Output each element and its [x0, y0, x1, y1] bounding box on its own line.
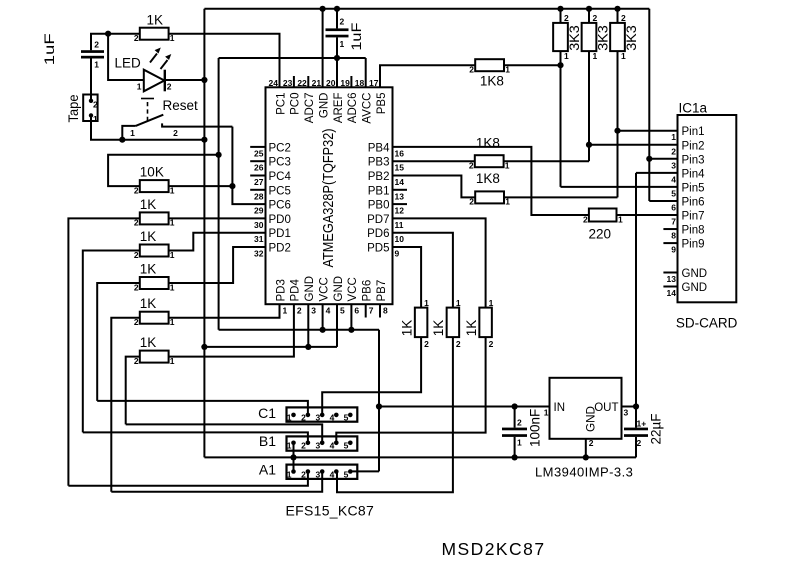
wire C2 top riser [336, 9, 338, 29]
wire SD right vertical [648, 9, 650, 201]
svg-text:VCC: VCC [318, 277, 330, 301]
svg-text:1: 1 [170, 185, 175, 195]
wire AVCC riser [365, 58, 367, 87]
junction 5 [216, 152, 222, 158]
stub SD Pin8 [663, 228, 677, 230]
svg-text:20: 20 [326, 78, 336, 88]
wire 10K pin2 link [108, 155, 219, 186]
connector J1 Tape body [83, 95, 97, 122]
svg-text:2: 2 [301, 413, 306, 423]
wire AREF/AVCC line [219, 57, 366, 59]
wire A1 pin3 feed [111, 472, 322, 492]
wire VCC descent [378, 330, 380, 472]
svg-text:1K: 1K [140, 296, 157, 311]
svg-text:Pin2: Pin2 [682, 140, 705, 152]
svg-text:PC1: PC1 [275, 93, 287, 115]
wire PD6 line [393, 233, 453, 308]
svg-text:220: 220 [589, 227, 612, 242]
junction 7 [320, 6, 326, 12]
svg-text:PB1: PB1 [368, 185, 390, 197]
junction 3 [119, 137, 125, 143]
wire R3 to PD1 [169, 233, 266, 251]
stub pin27 [250, 175, 265, 177]
resistor R1 1K (LED) [140, 28, 169, 40]
stub pin7 [365, 304, 367, 317]
svg-text:2: 2 [134, 317, 139, 327]
switch S1 blade [136, 115, 164, 126]
svg-text:1: 1 [137, 82, 142, 92]
junction 14 [586, 142, 592, 148]
svg-text:2: 2 [134, 282, 139, 292]
svg-text:23: 23 [283, 78, 293, 88]
svg-text:SD-CARD: SD-CARD [676, 316, 738, 331]
svg-text:3: 3 [315, 469, 320, 479]
junction 21 [376, 403, 382, 409]
svg-text:Pin7: Pin7 [682, 211, 705, 223]
wire GND left vertical [203, 9, 205, 458]
svg-text:PD5: PD5 [367, 243, 389, 255]
svg-text:1: 1 [170, 356, 175, 366]
junction 4 [201, 137, 207, 143]
junction 18 [348, 327, 354, 333]
wire pin6 VCC riser [350, 304, 352, 330]
svg-text:PD3: PD3 [275, 279, 287, 301]
svg-text:1: 1 [456, 298, 461, 308]
svg-text:22: 22 [297, 78, 307, 88]
stub SD GND14 [663, 286, 677, 288]
junction 9 [334, 55, 340, 61]
svg-text:15: 15 [395, 163, 405, 173]
svg-text:PC0: PC0 [290, 93, 302, 115]
junction 20 [201, 344, 207, 350]
svg-text:PB4: PB4 [368, 142, 390, 154]
wire PB2 line [393, 176, 476, 198]
svg-text:2: 2 [671, 146, 676, 156]
svg-text:27: 27 [254, 177, 264, 187]
svg-text:18: 18 [355, 78, 365, 88]
svg-text:PC6: PC6 [269, 200, 291, 212]
svg-text:1K: 1K [140, 335, 157, 350]
svg-text:3: 3 [311, 306, 316, 316]
svg-text:16: 16 [395, 148, 405, 158]
LED D1 triangle [144, 70, 165, 92]
connector C1 [287, 407, 358, 421]
junction 19 [305, 344, 311, 350]
wire VCC vertical [218, 58, 220, 330]
wire SD Pin4 riser [635, 173, 637, 407]
wire VCC to IN line [379, 406, 550, 408]
junction 6 [229, 183, 235, 189]
junction 15 [614, 128, 620, 134]
J1 pin dots [89, 99, 93, 103]
svg-text:1: 1 [593, 51, 598, 61]
svg-text:PD6: PD6 [367, 228, 389, 240]
svg-text:24: 24 [269, 78, 279, 88]
stub pin28 [250, 189, 265, 191]
svg-text:26: 26 [254, 163, 264, 173]
svg-text:32: 32 [254, 249, 264, 259]
svg-text:ADC6: ADC6 [347, 93, 359, 124]
stub SD Pin9 [663, 242, 677, 244]
svg-text:22µF: 22µF [649, 413, 664, 444]
resistor R11 220 [589, 209, 617, 222]
svg-text:2: 2 [621, 13, 626, 23]
op-amp U1 ATMEGA328P body [266, 87, 393, 304]
svg-text:PD2: PD2 [269, 243, 291, 255]
resistor R3K3-1 3K3 [553, 23, 568, 51]
resistor R7 10K [140, 180, 169, 192]
svg-text:11: 11 [395, 220, 404, 230]
svg-text:1: 1 [489, 298, 494, 308]
wire LM GND stub [585, 439, 587, 458]
wire 3K3c riser top [617, 9, 619, 23]
svg-text:GND: GND [682, 268, 708, 280]
svg-text:B1: B1 [259, 433, 276, 449]
wire cap1 to tape [90, 59, 92, 101]
svg-text:GND: GND [682, 282, 708, 294]
wire 3K3b riser top [588, 9, 590, 23]
svg-text:1: 1 [621, 51, 626, 61]
svg-text:1: 1 [170, 317, 175, 327]
stub pin23 [293, 76, 295, 87]
wire pin5 GND riser [336, 304, 338, 347]
wire pin4 VCC riser [322, 304, 324, 330]
svg-text:2: 2 [167, 82, 172, 92]
svg-text:2: 2 [134, 185, 139, 195]
svg-text:PD4: PD4 [290, 279, 302, 302]
svg-text:PB5: PB5 [376, 93, 388, 115]
wire R5 pin2 route [111, 318, 140, 492]
wire 3K3c descent [617, 51, 619, 197]
svg-text:2: 2 [593, 13, 598, 23]
svg-text:12: 12 [395, 206, 405, 216]
resistor R5 1K [140, 312, 169, 324]
svg-text:Pin1: Pin1 [682, 126, 705, 138]
wire PD7 line [393, 218, 486, 307]
svg-text:1+: 1+ [637, 418, 647, 428]
wire PD5 line [393, 247, 422, 308]
wire B1 pin4 to RV3 [336, 337, 485, 443]
svg-text:4: 4 [330, 441, 335, 451]
svg-text:1: 1 [170, 33, 175, 43]
svg-text:IN: IN [554, 402, 566, 414]
wire reset to PC6 [232, 127, 265, 205]
svg-text:1: 1 [94, 59, 99, 69]
wire PB3 line [393, 160, 475, 162]
svg-text:17: 17 [369, 78, 379, 88]
svg-text:VCC: VCC [347, 277, 359, 301]
wire 3K3b descent [588, 51, 590, 161]
wire SD Pin4 line [636, 172, 678, 174]
svg-text:2: 2 [93, 100, 98, 110]
svg-text:Pin8: Pin8 [682, 225, 705, 237]
junction 1 [105, 31, 111, 37]
svg-text:IC1a: IC1a [679, 101, 708, 116]
wire 100nF top riser [514, 407, 516, 428]
svg-text:7: 7 [671, 217, 676, 227]
resistor R9 1K8 [475, 155, 504, 167]
wire GND pin21 riser [322, 9, 324, 88]
svg-text:1: 1 [505, 65, 510, 75]
resistor R3K3-3 3K3 [610, 23, 625, 51]
wire 10K pin1 link [169, 185, 233, 187]
svg-text:2: 2 [134, 218, 139, 228]
svg-text:C1: C1 [258, 405, 276, 421]
svg-text:1uF: 1uF [348, 23, 364, 51]
svg-text:1: 1 [544, 408, 549, 418]
junction 12 [614, 6, 620, 12]
wire 1K8b out [504, 160, 589, 162]
svg-text:4: 4 [326, 306, 331, 316]
svg-text:3K3: 3K3 [624, 25, 639, 51]
wire R5 to PD3 [169, 304, 280, 318]
wire 3K3a descent [560, 51, 562, 187]
wire 3K3a riser top [560, 9, 562, 23]
wire 22uF top riser [635, 407, 637, 428]
svg-text:2: 2 [564, 13, 569, 23]
svg-text:3: 3 [671, 160, 676, 170]
svg-text:13: 13 [667, 274, 677, 284]
svg-text:AVCC: AVCC [362, 93, 374, 124]
resistor R10 1K8 [475, 191, 504, 203]
svg-text:2: 2 [637, 438, 642, 448]
LED D1 cathode bar [164, 70, 166, 92]
svg-text:25: 25 [254, 148, 264, 158]
wire PB4 to 220 [393, 147, 589, 215]
svg-text:OUT: OUT [594, 402, 618, 414]
svg-text:Reset: Reset [163, 98, 199, 113]
svg-text:PB3: PB3 [368, 157, 390, 169]
wire VCC bottom line [219, 329, 379, 331]
svg-text:21: 21 [312, 78, 322, 88]
wire B1 pin2 feed [83, 432, 308, 442]
junction 8 [334, 6, 340, 12]
svg-text:4: 4 [330, 469, 335, 479]
svg-text:1K: 1K [399, 320, 414, 337]
resistor R3K3-2 3K3 [582, 23, 597, 51]
svg-text:PB7: PB7 [376, 280, 388, 302]
switch S1 actuator dashed [147, 99, 149, 122]
svg-text:2: 2 [94, 40, 99, 50]
wire R4 pin2 route [97, 283, 140, 401]
svg-text:1K8: 1K8 [476, 136, 500, 151]
wire tape to GND row [91, 115, 204, 139]
wire SD Pin5 line [561, 186, 678, 188]
svg-text:1: 1 [170, 282, 175, 292]
svg-text:1: 1 [287, 413, 292, 423]
wire C1 pin3 to RV1 [322, 337, 421, 415]
svg-text:100nF: 100nF [528, 409, 543, 447]
capacitor C1 1uF plates [81, 50, 104, 53]
junction 23 [511, 454, 517, 460]
svg-text:1: 1 [283, 306, 288, 316]
resistor R4 1K [140, 277, 169, 289]
svg-text:1K: 1K [140, 197, 157, 212]
wire LED anode [108, 34, 144, 80]
svg-text:LM3940IMP-3.3: LM3940IMP-3.3 [535, 464, 633, 479]
stub SD GND13 [663, 272, 677, 274]
wire SD Pin6 line [649, 200, 677, 202]
svg-text:PB0: PB0 [368, 200, 390, 212]
svg-text:2: 2 [340, 16, 345, 26]
svg-text:4: 4 [671, 174, 676, 184]
wire A1 pin4 to RV2 [337, 337, 453, 492]
resistor RV1 1K [415, 308, 428, 338]
wire GND bottom rail [204, 456, 636, 458]
resistor R2 1K [140, 212, 169, 224]
wire R2 pin2 route [68, 218, 139, 485]
junction 22 [511, 403, 517, 409]
svg-text:2: 2 [297, 306, 302, 316]
svg-text:10K: 10K [140, 165, 164, 180]
svg-text:1K8: 1K8 [476, 171, 500, 186]
svg-text:1: 1 [424, 298, 429, 308]
stub pin22 [307, 76, 309, 87]
svg-text:30: 30 [254, 220, 264, 230]
junction 26 [290, 454, 296, 460]
connector A1 [287, 465, 358, 479]
svg-text:GND: GND [333, 276, 345, 302]
svg-text:GND: GND [318, 93, 330, 119]
svg-text:1: 1 [93, 114, 98, 124]
svg-text:6: 6 [671, 202, 676, 212]
wire 1K8a out [504, 64, 560, 66]
svg-text:3K3: 3K3 [596, 25, 611, 51]
svg-text:1K: 1K [147, 13, 164, 28]
svg-text:2: 2 [469, 197, 474, 207]
wire pin3 GND riser [307, 304, 309, 347]
capacitor C2 1uF plates [326, 28, 349, 31]
svg-text:1K: 1K [464, 320, 479, 337]
svg-text:1: 1 [130, 128, 135, 138]
svg-text:PC4: PC4 [269, 171, 292, 183]
wire 1K to PC1 [169, 34, 280, 88]
resistor R8 1K8 [475, 59, 504, 71]
svg-text:2: 2 [134, 33, 139, 43]
wire PB5 line [380, 65, 475, 87]
svg-text:2: 2 [517, 417, 522, 427]
wire B1 pin3 feed [126, 424, 323, 442]
svg-text:6: 6 [354, 306, 359, 316]
stub pin12 [393, 203, 408, 205]
svg-text:AREF: AREF [333, 93, 345, 124]
svg-text:PB2: PB2 [368, 171, 390, 183]
junction 13 [557, 62, 563, 68]
svg-text:1: 1 [340, 39, 345, 49]
svg-text:29: 29 [254, 206, 264, 216]
wire A1 pin2 feed [68, 472, 308, 486]
svg-text:2: 2 [134, 356, 139, 366]
svg-text:1: 1 [505, 197, 510, 207]
svg-text:13: 13 [395, 191, 405, 201]
stub pin25 [250, 146, 265, 148]
regulator U2 LM3940 body [550, 378, 622, 439]
svg-text:2: 2 [489, 339, 494, 349]
wire GND bottom pins line [204, 346, 337, 348]
wire reset pin1 riser [122, 126, 135, 140]
svg-text:5: 5 [340, 306, 345, 316]
svg-text:5: 5 [344, 469, 349, 479]
svg-text:2: 2 [301, 469, 306, 479]
junction 2 [201, 77, 207, 83]
resistor R3 1K [140, 245, 169, 257]
svg-text:28: 28 [254, 191, 264, 201]
svg-text:PC2: PC2 [269, 142, 291, 154]
wire GND top rail [204, 8, 649, 10]
svg-text:8: 8 [671, 231, 676, 241]
stub pin13 [393, 189, 408, 191]
svg-text:4: 4 [330, 413, 335, 423]
wire OUT stub [622, 406, 637, 408]
junction 11 [586, 6, 592, 12]
wire 1K8c out [504, 196, 617, 198]
svg-text:1K: 1K [140, 262, 157, 277]
svg-text:2: 2 [134, 250, 139, 260]
resistor RV3 1K [479, 308, 492, 338]
resistor RV2 1K [447, 308, 460, 338]
junction 10 [557, 6, 563, 12]
svg-text:1: 1 [564, 51, 569, 61]
svg-text:2: 2 [301, 441, 306, 451]
svg-text:1: 1 [287, 469, 292, 479]
svg-text:1: 1 [517, 437, 522, 447]
junction 25 [633, 403, 639, 409]
svg-text:5: 5 [344, 441, 349, 451]
svg-text:2: 2 [424, 339, 429, 349]
svg-text:9: 9 [671, 245, 676, 255]
svg-text:2: 2 [469, 65, 474, 75]
svg-text:14: 14 [667, 288, 677, 298]
svg-text:PC3: PC3 [269, 157, 291, 169]
svg-text:LED: LED [115, 56, 142, 71]
svg-text:1: 1 [287, 441, 292, 451]
svg-text:PD0: PD0 [269, 214, 291, 226]
svg-text:5: 5 [344, 413, 349, 423]
svg-text:1: 1 [618, 215, 623, 225]
svg-text:2: 2 [469, 161, 474, 171]
svg-text:ADC7: ADC7 [304, 93, 316, 124]
svg-text:3: 3 [624, 408, 629, 418]
wire AREF riser [336, 37, 338, 87]
connector IC1a body [678, 115, 737, 302]
capacitor C3 100nF plates [502, 428, 527, 431]
wire cap1 top to 1K [91, 34, 140, 51]
wire SD Pin3 line [649, 158, 677, 160]
wire C1 pin2 feed [97, 401, 308, 415]
junction 24 [583, 454, 589, 460]
resistor R6 1K [140, 351, 169, 363]
svg-text:1: 1 [505, 161, 510, 171]
wire reset pin2 [162, 123, 232, 126]
svg-text:2: 2 [583, 215, 588, 225]
svg-text:2: 2 [589, 438, 594, 448]
svg-text:3: 3 [315, 413, 320, 423]
wire R4 to PD2 [169, 247, 266, 283]
svg-text:1K: 1K [140, 229, 157, 244]
svg-text:PB6: PB6 [362, 280, 374, 302]
svg-text:EFS15_KC87: EFS15_KC87 [286, 503, 375, 519]
svg-text:5: 5 [671, 188, 676, 198]
capacitor C4 22uF plates [624, 428, 648, 431]
wire 220 to Pin7 [617, 214, 678, 216]
wire R3 pin2 route [83, 251, 140, 433]
svg-text:1: 1 [671, 132, 676, 142]
svg-text:GND: GND [584, 406, 598, 432]
svg-text:2: 2 [456, 339, 461, 349]
svg-text:8: 8 [383, 306, 388, 316]
LED D1 arrows [150, 54, 168, 70]
svg-text:1uF: 1uF [41, 33, 57, 65]
